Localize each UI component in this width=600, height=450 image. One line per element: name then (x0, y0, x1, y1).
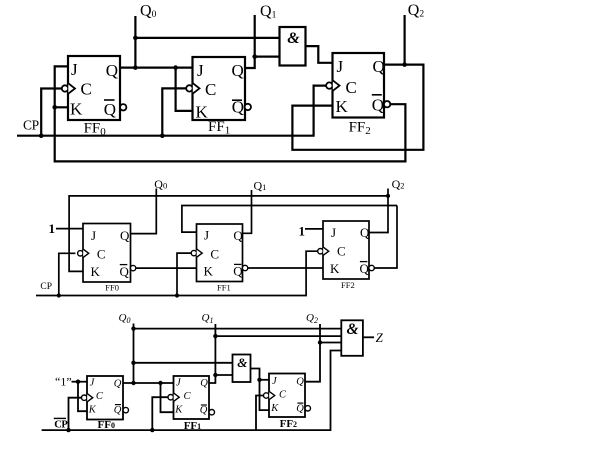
svg-text:Q: Q (296, 404, 304, 415)
svg-text:Q: Q (372, 96, 384, 115)
svg-text:C: C (337, 243, 346, 258)
svg-text:Q: Q (360, 261, 370, 276)
svg-text:Q: Q (104, 100, 116, 119)
svg-text:C: C (279, 390, 287, 401)
svg-text:Q: Q (232, 61, 244, 80)
svg-text:K: K (70, 99, 83, 118)
svg-text:Q: Q (114, 405, 122, 416)
svg-text:C: C (346, 78, 357, 97)
svg-text:1: 1 (299, 224, 306, 239)
svg-text:K: K (196, 103, 209, 122)
svg-text:&: & (237, 355, 247, 370)
svg-text:Q: Q (114, 378, 122, 389)
svg-text:C: C (205, 80, 216, 99)
svg-text:K: K (270, 403, 279, 414)
svg-text:&: & (347, 321, 359, 338)
svg-text:CP: CP (54, 419, 68, 430)
svg-text:FF0: FF0 (105, 283, 119, 293)
svg-text:J: J (197, 61, 204, 80)
svg-text:C: C (81, 80, 92, 99)
svg-text:CP: CP (23, 117, 39, 132)
svg-text:C: C (184, 391, 192, 402)
svg-text:“1”: “1” (55, 375, 72, 389)
svg-text:J: J (337, 57, 344, 76)
svg-text:J: J (91, 228, 96, 243)
svg-text:Q: Q (360, 225, 370, 240)
svg-text:K: K (336, 97, 349, 116)
svg-text:CP: CP (40, 282, 52, 292)
svg-text:C: C (97, 247, 106, 262)
svg-text:Q: Q (296, 377, 304, 388)
svg-text:Q: Q (200, 405, 208, 416)
svg-text:C: C (96, 391, 104, 402)
svg-text:J: J (331, 225, 336, 240)
svg-text:FF1: FF1 (217, 283, 231, 293)
svg-text:&: & (287, 30, 300, 47)
svg-text:FF2: FF2 (341, 280, 355, 290)
svg-text:FF0: FF0 (98, 419, 115, 431)
svg-text:FF2: FF2 (280, 418, 297, 430)
svg-text:Q: Q (233, 228, 243, 243)
svg-text:Q: Q (120, 264, 130, 279)
svg-text:Q: Q (233, 264, 243, 279)
svg-text:K: K (330, 261, 340, 276)
svg-text:J: J (204, 228, 209, 243)
svg-text:Z: Z (376, 330, 384, 345)
svg-text:K: K (91, 264, 101, 279)
svg-text:Q: Q (200, 378, 208, 389)
svg-text:K: K (174, 405, 183, 416)
svg-text:1: 1 (49, 221, 56, 236)
svg-text:C: C (210, 247, 219, 262)
svg-text:K: K (204, 264, 214, 279)
svg-text:FF1: FF1 (184, 420, 201, 432)
svg-text:K: K (88, 405, 97, 416)
svg-text:Q: Q (120, 228, 130, 243)
svg-text:Q: Q (373, 57, 385, 76)
svg-text:J: J (71, 60, 78, 79)
svg-text:Q: Q (106, 61, 118, 80)
